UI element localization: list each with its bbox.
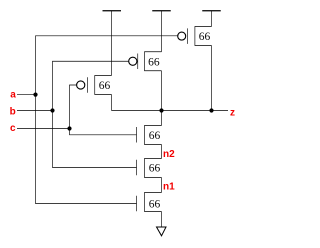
- pmos M2 gate bubble: [129, 57, 137, 65]
- pmos M1 gate bubble: [77, 81, 85, 89]
- svg-text:n1: n1: [163, 182, 175, 193]
- wire net a: label stub to vertical rail: [17, 94, 36, 96]
- node z junction at nmos stack: [159, 108, 163, 112]
- node z junction at M3 drain: [209, 108, 213, 112]
- node a junction: [33, 93, 37, 97]
- pmos M2 gate bar: [137, 54, 139, 70]
- wire M2 drain down to output junction: [161, 71, 163, 111]
- svg-text:66: 66: [199, 31, 211, 43]
- pmos M1 channel bracket: [95, 76, 112, 95]
- pmos M3 gate bubble: [178, 32, 186, 40]
- pmos M2 channel bracket: [145, 52, 162, 71]
- wire net b: label stub to vertical rail: [17, 110, 53, 112]
- wire net a: rail up to PMOS M3 gate and down to NMOS M6 gate: [36, 36, 178, 204]
- wire output net z: [112, 110, 229, 112]
- wire net n1 between M5 and M6: [161, 178, 163, 193]
- pmos M3 channel bracket: [195, 27, 212, 46]
- wire net b: rail up to PMOS M2 gate and down to NMOS M5 gate: [53, 61, 137, 167]
- svg-text:n2: n2: [163, 149, 175, 160]
- nmos M6 channel bracket: [145, 193, 162, 212]
- nmos M5 gate bar: [136, 160, 138, 176]
- svg-text:66: 66: [148, 56, 160, 68]
- svg-text:66: 66: [149, 130, 161, 142]
- nmos M4 channel bracket: [145, 126, 162, 145]
- wire M1 drain to output line: [111, 95, 113, 111]
- svg-text:z: z: [230, 107, 235, 118]
- svg-text:66: 66: [149, 199, 161, 211]
- svg-text:c: c: [10, 123, 16, 134]
- ground symbol: [157, 227, 167, 236]
- nmos M4 gate bar: [136, 127, 138, 143]
- wire M3 drain down to output junction: [211, 46, 213, 111]
- wire net c: rail up to PMOS M1 gate and down to NMOS M4 gate: [70, 85, 137, 135]
- nmos M6 gate bar: [136, 196, 138, 212]
- pmos M3 gate bar: [187, 28, 189, 43]
- svg-text:66: 66: [99, 80, 111, 92]
- wire net c: label stub to vertical rail: [17, 128, 70, 130]
- pmos M1 gate bar: [87, 77, 89, 93]
- nmos M5 channel bracket: [145, 159, 162, 178]
- node b junction: [50, 108, 54, 112]
- node c junction: [67, 126, 71, 130]
- wire M6 source to ground: [161, 212, 163, 228]
- svg-text:a: a: [10, 90, 16, 101]
- svg-text:b: b: [10, 106, 16, 117]
- power VDD1 (T-bar over M1): [103, 11, 122, 76]
- power VDD2 (T-bar over M2): [152, 11, 171, 52]
- wire net n2 between M4 and M5: [161, 145, 163, 159]
- power VDD3 (T-bar over M3): [202, 11, 221, 27]
- svg-text:66: 66: [149, 163, 161, 175]
- wire output down to nmos M4 drain: [161, 111, 163, 126]
